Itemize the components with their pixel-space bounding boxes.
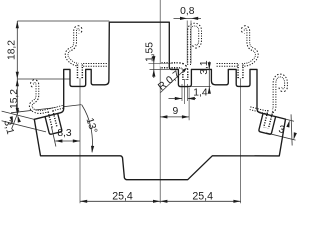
svg-text:25,4: 25,4: [192, 190, 213, 202]
svg-text:1,4: 1,4: [193, 87, 208, 98]
svg-text:9: 9: [173, 106, 179, 117]
svg-text:15,2: 15,2: [9, 89, 20, 109]
svg-text:1,55: 1,55: [144, 42, 155, 62]
svg-text:25,4: 25,4: [112, 190, 133, 202]
svg-text:8,3: 8,3: [57, 128, 72, 139]
svg-text:3,1: 3,1: [199, 60, 210, 75]
svg-text:0,8: 0,8: [180, 6, 195, 17]
svg-text:18,2: 18,2: [7, 40, 18, 60]
